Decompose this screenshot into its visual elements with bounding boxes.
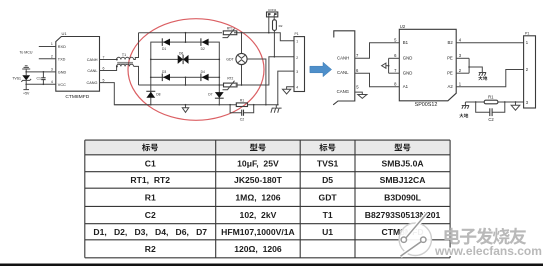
resistor R2 termination (273, 17, 283, 57)
svg-text:CANL: CANL (337, 70, 349, 75)
svg-text:D4: D4 (201, 70, 205, 74)
pin 2 PE stub (456, 68, 469, 73)
svg-text:TVS1: TVS1 (12, 76, 21, 80)
svg-text:P1: P1 (295, 32, 299, 36)
blue arrow (310, 62, 332, 76)
svg-text:C2: C2 (488, 117, 494, 122)
wire CANL rail (139, 57, 295, 85)
pin 1 RXD wire (39, 42, 56, 46)
svg-text:SMBJ12CA: SMBJ12CA (380, 175, 426, 185)
ground symbol above TVS1 (22, 66, 30, 72)
TVS diode TVS1 (12, 72, 31, 84)
svg-text:+5V: +5V (23, 92, 30, 96)
svg-text:6: 6 (103, 66, 105, 70)
wire T1 bottom output down to CANL rail (134, 66, 139, 85)
gas discharge tube GDT (226, 32, 247, 86)
svg-text:C2: C2 (145, 210, 156, 220)
common-mode choke T1 (116, 53, 134, 67)
svg-text:B1: B1 (403, 40, 409, 45)
svg-text:VCC: VCC (58, 83, 66, 87)
svg-text:3: 3 (526, 100, 529, 105)
diode D8 clamp (146, 76, 160, 105)
wire middle line through D6 (150, 59, 220, 61)
svg-text:7: 7 (103, 55, 105, 59)
svg-text:3: 3 (51, 68, 53, 72)
earth symbol at rail end (271, 104, 282, 113)
svg-text:D5: D5 (322, 175, 333, 185)
svg-text:2: 2 (526, 67, 529, 72)
svg-text:6: 6 (356, 68, 359, 73)
svg-text:120Ω, 1206: 120Ω, 1206 (234, 244, 282, 254)
diode D4 (201, 70, 209, 81)
earth symbol left of R1 (462, 102, 469, 109)
connector P1 (524, 31, 536, 108)
svg-text:D2: D2 (201, 47, 205, 51)
svg-text:D6: D6 (179, 52, 183, 56)
bottom black bar (0, 264, 543, 266)
svg-text:CANG: CANG (87, 81, 98, 85)
watermark logo and site text (decorative, part of source image) (399, 213, 542, 258)
svg-text:2: 2 (459, 68, 462, 73)
svg-text:4: 4 (459, 38, 462, 43)
capacitor C2 parallel branch (475, 101, 506, 122)
svg-text:D8: D8 (156, 92, 160, 96)
svg-text:3: 3 (296, 70, 298, 74)
wire CON1 left pin to CANH rail (268, 17, 270, 34)
pin 6 GND stub (389, 53, 400, 58)
svg-text:D1: D1 (162, 47, 166, 51)
chassis ground arrow below bridge (182, 104, 188, 113)
svg-text:8: 8 (394, 82, 397, 87)
svg-text:T1: T1 (122, 53, 126, 57)
wire PE tie to earth (468, 58, 482, 73)
thermistor RT2 (223, 76, 238, 89)
wire bottom earth rail (114, 104, 277, 106)
svg-text:SMBJ5.0A: SMBJ5.0A (382, 158, 424, 168)
wire bridge bottom center to CANL rail (185, 76, 187, 85)
svg-text:CTM8MFD: CTM8MFD (65, 94, 89, 100)
svg-text:1MΩ, 1206: 1MΩ, 1206 (235, 192, 280, 202)
pin 4 VCC wire (26, 80, 56, 84)
svg-text:RT1: RT1 (227, 26, 233, 30)
resistor R1 (484, 95, 498, 104)
svg-text:7: 7 (394, 68, 397, 73)
svg-text:RT2: RT2 (227, 76, 233, 80)
svg-text:R1: R1 (488, 95, 494, 100)
svg-text:GND: GND (58, 70, 67, 74)
wire CANH top rail (139, 33, 295, 41)
svg-text:RT1, RT2: RT1, RT2 (130, 175, 170, 185)
pin 6 CANL wire with jog (100, 66, 117, 70)
capacitor C1 (37, 72, 46, 84)
svg-text:B3D090L: B3D090L (384, 192, 421, 202)
svg-text:102, 2kV: 102, 2kV (240, 210, 277, 220)
svg-text:GDT: GDT (319, 192, 338, 202)
svg-text:1: 1 (51, 42, 53, 46)
connector P1 (294, 32, 305, 91)
diode D3 (162, 70, 170, 81)
svg-text:D1, D2, D3, D4, D6,: D1, D2, D3, D4, D6, D7 (93, 227, 207, 237)
label earth (da di) (459, 113, 468, 117)
svg-text:2: 2 (296, 56, 298, 60)
op-amp U2 module SP00S12 (399, 24, 456, 108)
svg-text:1: 1 (526, 40, 529, 45)
svg-text:PE: PE (447, 71, 453, 76)
pin 7 CANH wire (100, 55, 117, 59)
svg-text:U2: U2 (400, 24, 406, 29)
wire GDT side electrode to earth rail (247, 59, 267, 106)
svg-text:CANH: CANH (87, 58, 98, 62)
svg-text:B82793S0513N201: B82793S0513N201 (365, 210, 441, 220)
diode D1 (162, 38, 170, 51)
svg-text:P1: P1 (525, 31, 529, 35)
svg-text:www.elecfans.com: www.elecfans.com (434, 244, 542, 258)
wire P1 pin3 to earth rail (278, 71, 294, 105)
pin 7 CANH wire to B1 (355, 43, 400, 59)
+5V supply stub (23, 84, 30, 95)
label earth (da di) (478, 76, 487, 80)
svg-text:A2: A2 (448, 84, 454, 89)
capacitor C2 parallel branch (229, 104, 254, 121)
pin 5 CANG wire down to earth rail (100, 78, 151, 104)
pin 3 PE stub (456, 53, 469, 58)
svg-text:R1: R1 (240, 98, 244, 102)
svg-text:CANH: CANH (337, 55, 349, 60)
svg-text:GDT: GDT (226, 57, 234, 61)
svg-text:CON1: CON1 (268, 8, 277, 12)
svg-text:3: 3 (459, 53, 462, 58)
pin 7 GND stub (389, 68, 400, 73)
node junctions on rails (25, 71, 44, 85)
pin 3 GND wire (26, 68, 56, 72)
svg-text:5: 5 (356, 85, 359, 90)
svg-text:PE: PE (447, 56, 453, 61)
pin 4 B2 wire to P1 pin1 (456, 38, 523, 43)
wire P1 pin4 to chassis arrow (283, 87, 295, 94)
svg-text:2: 2 (51, 55, 53, 59)
svg-text:C1: C1 (145, 158, 156, 168)
pin 5 CANG wire to ground arrow (355, 85, 367, 99)
svg-text:4: 4 (296, 86, 298, 90)
pin 6 CANL wire to A1 (355, 68, 400, 87)
diode D7 clamp (208, 76, 223, 105)
svg-text:GND: GND (403, 71, 413, 76)
svg-text:GND: GND (403, 56, 413, 61)
svg-text:U1: U1 (62, 31, 68, 36)
chassis arrow before P1 pin3 (511, 101, 520, 110)
diode D2 (201, 38, 209, 51)
svg-text:7: 7 (356, 53, 359, 58)
svg-text:4: 4 (51, 80, 53, 84)
svg-text:5: 5 (103, 78, 105, 82)
svg-text:R2: R2 (145, 244, 156, 254)
wire GND tie with arrow (382, 58, 390, 73)
red highlight ellipse (128, 19, 264, 121)
svg-text:CANG: CANG (337, 89, 350, 94)
pin 1 A2 wire to P1 pin2 (456, 70, 523, 87)
svg-text:10μF, 25V: 10μF, 25V (237, 158, 279, 168)
svg-text:To MCU: To MCU (20, 50, 33, 54)
op-amp U1 transceiver CTM8MFD (56, 31, 100, 100)
wire T1 top output up to CANH rail (134, 33, 139, 60)
svg-text:R1: R1 (145, 192, 156, 202)
svg-text:C2: C2 (240, 117, 245, 121)
component value table (85, 140, 450, 258)
diode bridge box (151, 42, 220, 77)
wire bridge top center to CANH rail (185, 32, 187, 43)
svg-text:D3: D3 (162, 70, 166, 74)
wire A2 net bottom with R1 C2 to P1 pin3 (465, 101, 523, 103)
svg-text:R2: R2 (279, 24, 283, 28)
resistor R1 (236, 98, 247, 106)
partial transceiver IC (right half) (333, 31, 355, 105)
pin 2 TXD wire (39, 55, 56, 59)
thermistor RT1 (223, 26, 237, 37)
connector CON1 jumper (267, 8, 278, 17)
svg-text:C1: C1 (37, 77, 42, 81)
TVS diode D6 bidirectional (178, 52, 189, 65)
svg-text:HFM107,1000V/1A: HFM107,1000V/1A (221, 227, 295, 237)
svg-text:5: 5 (394, 38, 397, 43)
svg-text:B2: B2 (448, 40, 454, 45)
svg-text:6: 6 (394, 53, 397, 58)
svg-text:1: 1 (459, 82, 462, 87)
svg-text:TVS1: TVS1 (317, 158, 339, 168)
svg-text:D7: D7 (208, 92, 212, 96)
earth symbol PE (claw) (479, 73, 486, 76)
svg-text:1: 1 (296, 39, 298, 43)
svg-text:T1: T1 (323, 210, 333, 220)
svg-text:A1: A1 (403, 84, 409, 89)
svg-text:TXD: TXD (58, 57, 66, 61)
svg-text:SP00S12: SP00S12 (415, 102, 438, 108)
svg-text:JK250-180T: JK250-180T (234, 175, 283, 185)
svg-text:U1: U1 (322, 227, 333, 237)
svg-text:CANL: CANL (87, 69, 97, 73)
svg-text:RXD: RXD (58, 45, 66, 49)
